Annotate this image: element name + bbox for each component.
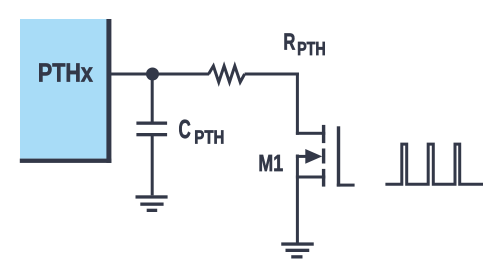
svg-text:C: C [179, 116, 191, 144]
node A (junction dot) [146, 68, 159, 81]
svg-text:PTH: PTH [194, 127, 224, 148]
wire: node A to resistor R_PTH [153, 73, 210, 76]
wire: node A to capacitor C_PTH [151, 74, 154, 123]
resistor R_PTH [209, 66, 245, 82]
svg-text:PTHx: PTHx [38, 59, 93, 87]
transistor M1 body arrow [296, 149, 322, 164]
label C_PTH [179, 116, 225, 148]
ground (below C_PTH) [136, 195, 168, 212]
device block (PTHx pin) [20, 19, 112, 163]
svg-text:M1: M1 [258, 150, 283, 176]
wire: M1 gate lead [337, 184, 355, 187]
ground (below M1 source) [281, 242, 314, 258]
gate drive pulse waveform [385, 144, 483, 184]
wire: PTHx pin to node A [107, 73, 153, 76]
label M1 [258, 150, 283, 176]
svg-text:PTH: PTH [297, 38, 326, 59]
transistor M1 gate bar [337, 126, 340, 186]
wire: C_PTH to ground [151, 136, 154, 195]
transistor M1 channel (body segment) [322, 149, 325, 164]
wire: M1 source lead [296, 155, 325, 245]
transistor M1 channel (drain segment) [322, 125, 325, 143]
capacitor C_PTH [136, 122, 167, 137]
svg-text:R: R [283, 29, 295, 55]
pin label PTHx [38, 59, 93, 87]
transistor M1 channel (source segment) [322, 169, 325, 187]
label R_PTH [283, 29, 325, 59]
wire: resistor R_PTH to M1 drain [245, 73, 326, 135]
